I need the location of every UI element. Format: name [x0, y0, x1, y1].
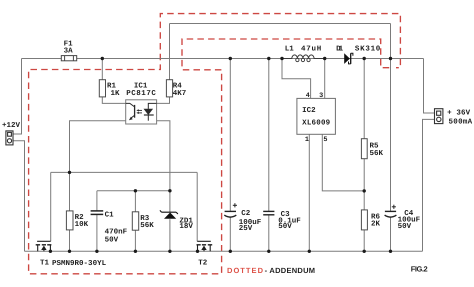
- svg-text:DOTTED: DOTTED: [227, 266, 264, 275]
- addendum dashed boundary: [29, 14, 401, 274]
- wire pin5 to R5-R6: [322, 134, 364, 191]
- resistor R4: [166, 80, 172, 97]
- wire pin3: [324, 59, 326, 99]
- wire top rail left segment: [22, 58, 62, 60]
- svg-text:10K: 10K: [75, 220, 89, 229]
- svg-text:56K: 56K: [140, 221, 154, 230]
- wire bottom rail right end to output bottom pin: [423, 119, 435, 251]
- svg-text:3A: 3A: [64, 46, 74, 55]
- wire R3 top: [134, 191, 136, 212]
- resistor R5: [361, 139, 367, 159]
- wire feedback top: [170, 23, 391, 25]
- svg-text:+ 36V: + 36V: [447, 109, 471, 118]
- wire C3 column top: [268, 59, 270, 212]
- svg-text:56K: 56K: [370, 149, 384, 158]
- svg-text:3: 3: [319, 92, 323, 100]
- svg-text:L1: L1: [285, 46, 295, 54]
- transistor T2: [197, 241, 213, 251]
- svg-text:+12V: +12V: [2, 121, 20, 130]
- wire L1 jog to pin4: [282, 59, 311, 99]
- svg-text:T1: T1: [40, 259, 50, 267]
- svg-text:1K: 1K: [111, 90, 121, 98]
- wire rail to output top pin: [424, 59, 435, 114]
- C2 plus: [233, 203, 237, 207]
- svg-text:XL6009: XL6009: [302, 119, 331, 128]
- svg-text:2K: 2K: [371, 220, 381, 229]
- IC1 LED: [144, 103, 157, 120]
- svg-text:C2: C2: [241, 209, 251, 218]
- svg-text:47uH: 47uH: [301, 46, 321, 54]
- capacitor C1: [91, 211, 104, 215]
- C4 plus: [392, 205, 396, 209]
- wire C2 column top: [229, 59, 231, 212]
- svg-text:470nF: 470nF: [105, 228, 128, 237]
- zener ZD1: [164, 213, 176, 219]
- wire +12V bottom pin drop: [13, 141, 25, 252]
- wire R6 bottom: [363, 230, 365, 251]
- wire T1 gate riser: [50, 172, 52, 241]
- svg-text:50V: 50V: [278, 222, 292, 231]
- wire T2 gate riser: [196, 172, 198, 241]
- svg-text:IC2: IC2: [302, 106, 316, 115]
- opto IC1 box: [126, 100, 157, 124]
- wire R5 to R6: [363, 159, 365, 210]
- wire B node: [97, 190, 170, 192]
- capacitor C2: [224, 211, 236, 217]
- svg-text:18V: 18V: [179, 222, 193, 231]
- svg-text:FIG.2: FIG.2: [411, 265, 428, 274]
- resistor R2: [66, 211, 73, 230]
- IC1 emitter arrow: [129, 117, 133, 121]
- wire A gate rail: [51, 171, 198, 173]
- wire C1 top: [96, 191, 98, 211]
- wire R2 bottom: [69, 230, 71, 251]
- svg-text:PC817C: PC817C: [126, 89, 156, 98]
- wire C4 column top: [390, 59, 392, 212]
- wire R1 to opto collector: [102, 97, 125, 104]
- svg-text:- ADDENDUM: - ADDENDUM: [265, 266, 315, 275]
- resistor R1: [99, 80, 105, 97]
- wire C2 column bottom: [229, 218, 231, 252]
- svg-text:5: 5: [323, 136, 327, 144]
- IC1 phototransistor: [126, 103, 135, 118]
- wire R4 feedback riser: [169, 24, 171, 80]
- wire R3 bottom: [134, 230, 136, 251]
- svg-text:D1: D1: [336, 46, 344, 54]
- resistor R3: [132, 212, 138, 230]
- inductor L1: [282, 55, 325, 59]
- svg-text:C1: C1: [105, 211, 115, 220]
- capacitor C4: [385, 211, 397, 217]
- svg-text:50V: 50V: [105, 236, 119, 245]
- wire pin1: [308, 134, 310, 251]
- svg-text:SK310: SK310: [355, 45, 381, 54]
- wire opto cathode down: [157, 121, 170, 213]
- diode D1 schottky: [344, 53, 350, 64]
- svg-text:T2: T2: [198, 258, 208, 267]
- wire R1 top: [101, 59, 103, 80]
- wire feedback right drop: [390, 24, 392, 59]
- svg-text:500mA: 500mA: [449, 118, 473, 127]
- IC1 light arrows: [138, 110, 142, 113]
- wire ZD1 anode bottom: [169, 219, 171, 251]
- L1 loops: [296, 58, 310, 61]
- fuse F1: [61, 56, 76, 61]
- wire bottom rail: [25, 250, 423, 252]
- wire C3 column bottom: [268, 215, 270, 252]
- connector output: [435, 109, 443, 124]
- connector +12V: [6, 131, 13, 145]
- capacitor C3: [263, 211, 274, 214]
- resistor R6: [361, 210, 367, 230]
- svg-text:25V: 25V: [239, 224, 253, 233]
- svg-text:4K7: 4K7: [173, 90, 187, 98]
- wire R4 to opto anode: [157, 97, 170, 104]
- wire C4 column bottom: [390, 218, 392, 252]
- svg-text:1: 1: [305, 136, 309, 144]
- transistor T1: [36, 241, 52, 251]
- svg-text:PSMN9R0-30YL: PSMN9R0-30YL: [52, 259, 107, 268]
- wire opto emitter to gate node: [70, 121, 126, 211]
- wire C1 bottom: [96, 214, 98, 251]
- svg-text:4: 4: [306, 92, 310, 100]
- wire top rail right segment: [77, 58, 424, 60]
- wire R5 top: [363, 59, 365, 139]
- svg-text:50V: 50V: [398, 222, 412, 231]
- wire left riser from +12V: [13, 59, 22, 135]
- IC2 XL6009 box: [297, 98, 336, 134]
